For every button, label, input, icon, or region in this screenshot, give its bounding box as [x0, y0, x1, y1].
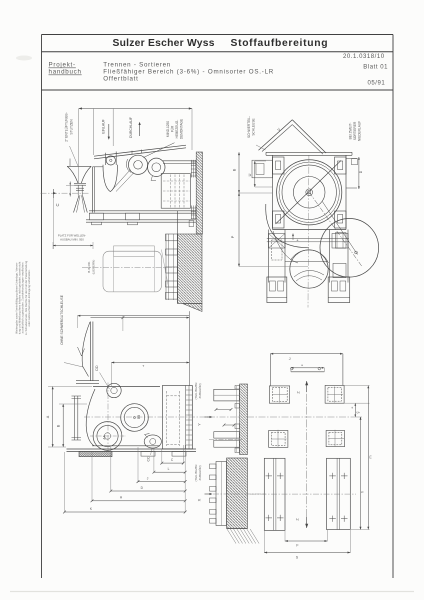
- foot left slots: [270, 281, 276, 291]
- dim arrow B mid: [238, 190, 240, 193]
- anchor pad TR: [325, 385, 344, 403]
- T dim line 2: [111, 362, 189, 364]
- vent lower cone left: [74, 195, 80, 212]
- footing right cross 2: [341, 475, 348, 477]
- vent neck sides: [77, 185, 79, 195]
- svg-text:Projekt-: Projekt-: [49, 62, 76, 69]
- pipe stub lower 2: [214, 440, 240, 447]
- outline left vertical: [269, 354, 271, 386]
- svg-text:X: X: [197, 498, 202, 501]
- vent neck flange 4: [76, 190, 84, 192]
- housing right panel: [346, 158, 357, 160]
- cone inner vee: [78, 347, 85, 356]
- svg-text:P: P: [231, 235, 235, 238]
- arrow DURCHLAUF up: [139, 125, 141, 137]
- dim line view A overall width: [79, 108, 192, 110]
- svg-text:Stoffaufbereitung: Stoffaufbereitung: [231, 38, 329, 49]
- Z centerline: [306, 381, 308, 528]
- dim m vertical: [367, 386, 369, 530]
- cone silhouette: [82, 322, 90, 377]
- ext F left: [284, 531, 286, 541]
- rotor circle 2: [282, 165, 336, 219]
- centerline lower pipes: [209, 439, 242, 441]
- ground hatch lines: [227, 529, 236, 544]
- T dim extension vertical: [188, 311, 190, 385]
- rotor diagonal 2: [309, 192, 362, 266]
- leader CC: [151, 449, 153, 456]
- base C rail 1: [67, 448, 197, 450]
- sluice housing arc: [126, 159, 131, 173]
- vent neck flange 3: [76, 187, 84, 189]
- vent upper cone right: [81, 166, 91, 183]
- footing right cross 4: [341, 518, 348, 520]
- wall upper hatch: [196, 152, 202, 234]
- shaft removal dim: [53, 245, 93, 247]
- footing right rect: [327, 458, 351, 529]
- housing left panel: [252, 160, 273, 178]
- casing bracket lower: [333, 263, 346, 277]
- bridge stub left: [290, 368, 292, 372]
- svg-text:L: L: [168, 467, 170, 471]
- ext S right: [349, 530, 351, 553]
- chute diagonals: [112, 170, 131, 191]
- svg-text:OHNE SCHWERGUTSCHLEUSE: OHNE SCHWERGUTSCHLEUSE: [60, 294, 64, 345]
- rotor circle 3: [293, 177, 325, 209]
- outlet CC tab: [145, 434, 150, 438]
- dim a dots: [291, 367, 294, 370]
- svg-text:CC: CC: [147, 456, 151, 461]
- base rail bottom 1: [86, 219, 196, 221]
- svg-text:2" ENTLÜFTUNGS-: 2" ENTLÜFTUNGS-: [65, 112, 69, 141]
- bridge top edge: [291, 371, 324, 373]
- foot right plate: [328, 297, 350, 299]
- drum C flange verticals: [185, 386, 187, 449]
- svg-text:Offertblatt: Offertblatt: [103, 76, 138, 83]
- header bottom line: [42, 89, 394, 91]
- page frame right border: [392, 35, 394, 579]
- footing right centerlines: [336, 458, 338, 529]
- pipe stub lower 1: [214, 432, 240, 438]
- ext line y187: [255, 186, 273, 188]
- svg-text:Fließfähiger Bereich (3-6%) -: Fließfähiger Bereich (3-6%) - Omnisorter…: [103, 69, 274, 76]
- ext S left: [263, 531, 265, 553]
- ext line y161: [255, 160, 266, 162]
- small arrow a: [292, 234, 294, 237]
- lower rotor blade 2: [296, 276, 322, 281]
- svg-text:DURCHLAUF: DURCHLAUF: [129, 117, 133, 138]
- body top line: [93, 386, 160, 388]
- svg-text:B: B: [232, 168, 236, 171]
- top plate line 2: [266, 154, 352, 156]
- motor body verticals: [113, 257, 115, 292]
- svg-text:U: U: [248, 173, 252, 176]
- base C foot right 2: [172, 452, 186, 457]
- extension line plate left: [93, 109, 95, 156]
- dim arrow P bottom: [238, 264, 240, 267]
- foot left plate: [267, 297, 287, 299]
- dim B P vertical: [238, 152, 240, 266]
- body bottom line: [92, 445, 160, 447]
- rotor hub: [306, 189, 313, 196]
- dim F line: [285, 540, 327, 542]
- drum C outer rect: [162, 386, 192, 449]
- wall bolt column verticals: [165, 234, 167, 300]
- dim J1: [138, 481, 185, 483]
- Y arrow: [205, 416, 211, 418]
- ext pad2 bottom: [345, 402, 370, 404]
- Z arrow up: [305, 381, 308, 385]
- svg-text:A: A: [46, 415, 50, 418]
- svg-text:ZUBEHÖR): ZUBEHÖR): [198, 383, 202, 398]
- volute arc: [266, 204, 309, 248]
- ext vline x64: [64, 452, 66, 513]
- centerline X right: [213, 493, 266, 495]
- drum C inner dashed right: [178, 391, 180, 446]
- wall step hatch: [183, 304, 203, 312]
- leader to MIND text: [143, 143, 174, 158]
- svg-text:MIND.1250: MIND.1250: [166, 121, 170, 137]
- ext line B top: [59, 403, 87, 405]
- header title separator line: [42, 51, 394, 53]
- ext vline x185 dims: [184, 445, 186, 513]
- extension line wall top: [191, 109, 193, 151]
- base foot mid: [126, 213, 140, 220]
- datum arrow: [53, 192, 56, 194]
- top plate line 1: [266, 151, 352, 153]
- drum flange bolts lower: [191, 206, 193, 220]
- pipe stub upper mid: [214, 394, 240, 396]
- drive circle AA inner: [97, 425, 118, 446]
- footing left centerlines: [272, 458, 274, 530]
- svg-text:m: m: [368, 456, 372, 459]
- housing left wall: [272, 155, 274, 229]
- base foot left pad: [92, 222, 102, 225]
- base rail top 2: [89, 212, 196, 214]
- footing right cross 3: [329, 518, 336, 520]
- dim arrow right: [189, 107, 192, 109]
- ext centerline right: [352, 416, 362, 418]
- shaft removal ext lines: [52, 242, 54, 249]
- outlet CC ellipse: [144, 435, 161, 448]
- pipe dia dim: [216, 409, 231, 411]
- leader Schwerteil: [256, 145, 266, 150]
- ext m top: [345, 385, 370, 387]
- svg-text:EINLAUF: EINLAUF: [102, 119, 106, 133]
- T dim ext to outlet: [110, 363, 112, 387]
- dim H1: [92, 500, 185, 502]
- outline right vertical: [342, 354, 344, 386]
- drum side dashed 1: [170, 175, 172, 208]
- frame rail upper: [267, 238, 349, 240]
- svg-text:FÜR: FÜR: [171, 125, 175, 132]
- V funnel right leg inner: [292, 125, 323, 155]
- drum C inner dashed bottom: [167, 444, 180, 446]
- svg-text:(LIEFERN): (LIEFERN): [91, 260, 95, 275]
- ext vline x153: [153, 448, 155, 473]
- frame rail lower: [285, 261, 328, 263]
- svg-text:SCHWERTEIL-: SCHWERTEIL-: [247, 116, 251, 138]
- ext hm bottom: [351, 529, 370, 531]
- base C foot hatch: [79, 452, 112, 457]
- foot right: [328, 277, 350, 303]
- rotary sluice outer circle: [128, 155, 147, 174]
- drum side dashed rows: [163, 180, 190, 182]
- svg-text:AUSBAU MIN. 950: AUSBAU MIN. 950: [60, 238, 84, 242]
- inlet pipe left: [104, 153, 106, 165]
- ext line A top: [48, 386, 92, 388]
- dim g vertical: [354, 403, 356, 417]
- dim arrow left: [79, 107, 82, 109]
- footing left cross 1: [266, 475, 273, 477]
- wall bracket small: [189, 220, 193, 226]
- arrow EINLAUF down: [108, 124, 110, 137]
- drive hub: [104, 433, 110, 439]
- ext line y266 to center: [239, 266, 308, 268]
- svg-text:h: h: [361, 491, 365, 493]
- leader ohne: [64, 363, 83, 368]
- frame inner box left: [272, 240, 283, 260]
- housing right wall: [345, 155, 347, 229]
- svg-text:Y: Y: [197, 423, 202, 426]
- vessel U body: [103, 165, 118, 192]
- belt curve: [273, 231, 298, 263]
- dim C1: [162, 462, 184, 464]
- dim D1: [111, 490, 185, 492]
- foundation block bottom: [227, 528, 248, 530]
- center vline B: [307, 155, 310, 307]
- dim arrow B top: [238, 152, 240, 155]
- dim U vertical: [254, 161, 256, 187]
- svg-text:DEMONTAGE: DEMONTAGE: [180, 119, 184, 139]
- base foot left: [90, 213, 104, 220]
- top plate upper edge: [94, 145, 186, 156]
- ext vline x183: [182, 445, 184, 464]
- top plate lower edge: [94, 148, 186, 159]
- vent upper cone left: [67, 166, 78, 183]
- ext F right: [326, 530, 328, 541]
- T dim small vline: [122, 316, 124, 331]
- wall bolt rect 5: [166, 292, 178, 299]
- svg-text:BEI ZWEIT-: BEI ZWEIT-: [349, 123, 353, 140]
- drum side dashed 3: [179, 175, 181, 208]
- svg-text:oder Gebrauchsmuster-Eintragun: oder Gebrauchsmuster-Eintragung vorbehal…: [27, 269, 31, 326]
- vessel left wall 2: [93, 167, 95, 213]
- motor body outline: [103, 251, 161, 292]
- V funnel left leg inner: [262, 125, 292, 152]
- right casing circle: [320, 219, 379, 278]
- footing left cross 2: [277, 475, 284, 477]
- pipe stub upper: [214, 389, 240, 401]
- wall bolt rect 1: [166, 234, 178, 241]
- drum top line 1: [163, 160, 196, 162]
- svg-text:C: C: [55, 203, 60, 206]
- rotor diagonal: [276, 161, 342, 225]
- bridge stub right: [323, 368, 325, 372]
- dim A vertical: [52, 387, 54, 448]
- page frame left border: [41, 35, 43, 579]
- ext vline x138: [137, 447, 139, 482]
- anchor pad BR: [326, 431, 345, 447]
- cover circle BB inner: [124, 407, 144, 427]
- vessel left wall 1: [92, 167, 94, 213]
- anchor plate: [216, 462, 227, 526]
- dim L1: [154, 471, 185, 473]
- foot right slots: [332, 281, 338, 291]
- base foot mid pad: [128, 222, 138, 225]
- footing left cross 3: [266, 517, 273, 519]
- V funnel right leg: [292, 120, 326, 153]
- centerline D horizontal: [247, 416, 352, 418]
- svg-text:20.1.0318/10: 20.1.0318/10: [343, 54, 385, 60]
- base rail top 1: [89, 210, 196, 212]
- lower rotor arc: [291, 250, 329, 263]
- ext line y193: [239, 192, 273, 194]
- cone flange: [76, 380, 99, 382]
- svg-text:SORTIERER: SORTIERER: [353, 121, 357, 140]
- rotor circle outer: [277, 160, 342, 225]
- drum end flange inner: [152, 163, 161, 172]
- extension line inlet: [112, 109, 114, 147]
- ext cone vline: [77, 316, 79, 328]
- body left silhouette: [86, 389, 95, 446]
- svg-text:NIEDERLAUF: NIEDERLAUF: [358, 121, 362, 141]
- wall C upper bolts: [235, 386, 240, 390]
- vent axis extension: [78, 109, 80, 184]
- wall C upper bolt line: [236, 386, 238, 452]
- drum side dashed 4: [183, 175, 185, 208]
- wall lower hatch: [178, 234, 203, 304]
- svg-text:ZUBEHÖR): ZUBEHÖR): [198, 465, 202, 480]
- ext line AB bottom: [48, 446, 66, 448]
- dim S line: [264, 552, 350, 554]
- svg-text:T: T: [142, 364, 144, 368]
- base C foot right 1: [141, 452, 155, 457]
- plate bolt circle: [106, 156, 115, 165]
- svg-text:g: g: [355, 411, 359, 413]
- wall bolt rect 3: [166, 267, 178, 273]
- footing left rect: [264, 458, 285, 530]
- drum C inner dashed top: [167, 395, 180, 397]
- vent neck dim: [69, 182, 71, 197]
- V funnel left leg: [259, 120, 293, 151]
- footing left cross 4: [277, 517, 284, 519]
- X arrow: [205, 493, 211, 495]
- top plate right cap: [351, 152, 353, 155]
- motor top box: [114, 246, 155, 257]
- rotor circle 1b: [279, 162, 339, 222]
- dim line C top: [78, 315, 190, 317]
- dim K1: [65, 511, 186, 513]
- frame post L1: [268, 230, 270, 283]
- Z arrow down: [305, 524, 308, 528]
- cover circle BB outer: [121, 404, 149, 432]
- footing right cross 1: [329, 475, 336, 477]
- svg-text:05/91: 05/91: [368, 81, 386, 87]
- corner bracket BR: [335, 211, 347, 228]
- lower rotor circle: [290, 250, 328, 288]
- ext vline x110: [110, 447, 112, 492]
- housing bottom: [273, 229, 347, 231]
- foundation block hatch: [227, 458, 248, 529]
- wall bolt rect 4: [166, 281, 178, 287]
- casing bracket upper: [335, 233, 346, 248]
- svg-text:HEBEZEUG-: HEBEZEUG-: [175, 120, 179, 139]
- svg-text:J: J: [289, 357, 291, 361]
- motor coupling diagonal: [161, 250, 168, 287]
- anchor pad BL: [269, 431, 288, 448]
- svg-text:Trennen - Sortieren: Trennen - Sortieren: [103, 62, 171, 69]
- frame post R2: [347, 230, 349, 283]
- vent neck flange 2: [74, 184, 86, 186]
- leader DD: [100, 373, 110, 390]
- left guard strip: [74, 396, 76, 440]
- ext vline x161: [161, 449, 163, 464]
- motor centerline: [82, 266, 177, 268]
- corner bracket TL: [273, 157, 285, 174]
- drum top line 2: [163, 163, 196, 165]
- machine centerline C: [84, 416, 209, 418]
- drum side rect: [161, 174, 190, 209]
- anchor pad TL: [269, 386, 289, 403]
- corner bracket BL: [273, 211, 285, 228]
- machine vertical centerline C: [107, 383, 109, 453]
- frame post L2: [284, 230, 286, 283]
- drum end flange ellipse: [148, 158, 165, 176]
- base C rail 2: [67, 451, 197, 453]
- sluice inlet pipe: [131, 151, 133, 155]
- centerline C right: [209, 416, 240, 418]
- scan smudge: [16, 56, 32, 61]
- wall bolt rect 2: [166, 249, 178, 255]
- lower rotor blade 1: [294, 270, 324, 277]
- AA centerline: [90, 435, 126, 437]
- dim a line: [291, 367, 324, 369]
- frame post R1: [329, 230, 331, 283]
- corner bracket TR: [335, 157, 347, 174]
- top plate left cap: [265, 152, 267, 155]
- page bottom scan shadow: [10, 591, 414, 593]
- drum C flange rungs: [186, 389, 193, 391]
- cover hub dot: [133, 416, 135, 418]
- vent lower cone right: [83, 195, 88, 212]
- ext vline x92: [91, 452, 93, 501]
- dim B2 vertical: [62, 404, 64, 447]
- svg-text:SCHLEUSE: SCHLEUSE: [252, 118, 256, 135]
- drum C inner dashed left: [166, 391, 168, 446]
- bearing box right: [332, 234, 348, 249]
- footing centerline dash: [250, 493, 356, 495]
- T dim line 1: [91, 317, 190, 319]
- svg-text:DD: DD: [95, 365, 99, 371]
- dim D right: [358, 157, 360, 189]
- vent neck flange 1: [74, 182, 86, 184]
- vent outlet circle DD: [107, 383, 121, 397]
- svg-text:Sulzer Escher Wyss: Sulzer Escher Wyss: [113, 38, 215, 49]
- svg-text:B: B: [56, 424, 60, 427]
- inlet pipe right: [115, 152, 117, 166]
- svg-text:Blatt 01: Blatt 01: [363, 65, 388, 71]
- wall C upper hatch: [240, 384, 248, 455]
- machine centerline A: [41, 192, 91, 194]
- drum side dashed 2: [174, 175, 176, 208]
- drum flange bolts upper: [191, 160, 193, 178]
- vessel top corner: [93, 166, 103, 168]
- cone pipe line 2: [92, 322, 94, 382]
- vent pipe top left: [69, 159, 71, 167]
- cone pipe line 1: [90, 322, 92, 382]
- header box top line: [42, 34, 394, 36]
- rotary sluice hub circle: [134, 161, 143, 170]
